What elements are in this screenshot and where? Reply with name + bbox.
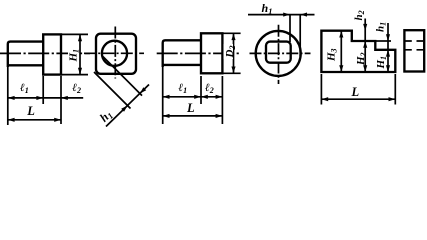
- svg-text:L: L: [351, 85, 360, 99]
- svg-text:L: L: [186, 101, 195, 115]
- svg-text:L: L: [26, 104, 35, 118]
